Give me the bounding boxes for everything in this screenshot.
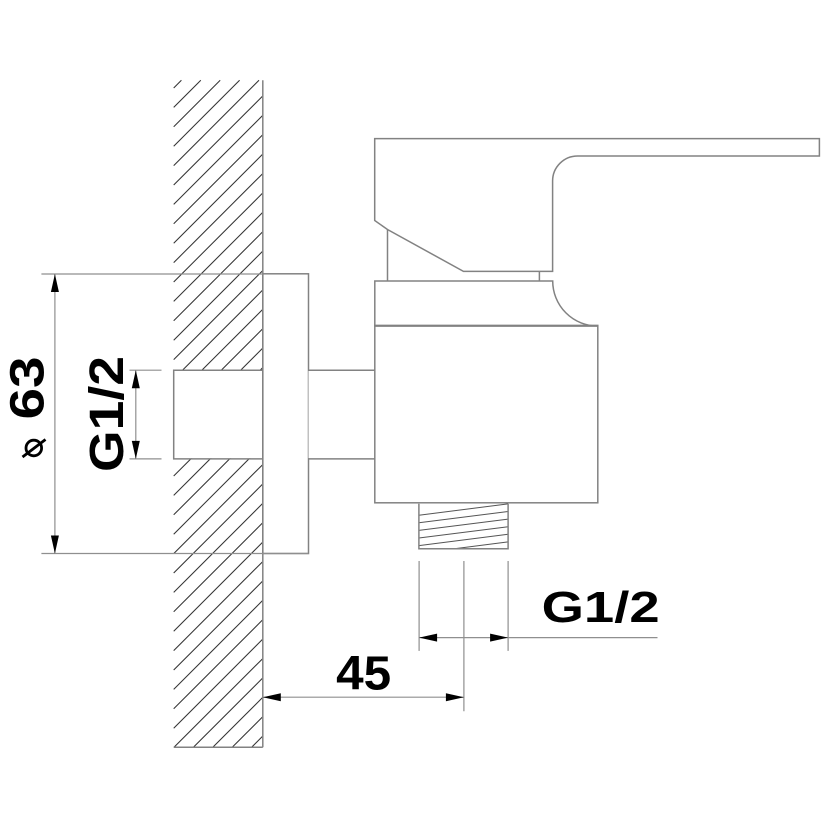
dimension diameter 63: arrow up <box>51 274 59 292</box>
dimension diameter 63: extension line top <box>41 273 262 275</box>
bonnet step <box>538 271 540 281</box>
dimension G1/2 bottom: extension line right <box>507 561 509 651</box>
label diameter symbol <box>23 440 46 458</box>
svg-text:45: 45 <box>336 647 391 700</box>
wall bottom edge <box>174 746 263 748</box>
dimension 45: dimension line <box>263 696 464 698</box>
wall hole (pipe pass-through) <box>173 370 262 459</box>
dimension diameter 63: extension line bottom <box>41 553 308 555</box>
dimension diameter 63: dimension line <box>54 274 56 554</box>
wall plate (escutcheon) <box>263 274 309 554</box>
dimension G1/2 bottom: extension line left <box>418 561 420 651</box>
dimension G1/2 left: dimension line <box>135 370 137 459</box>
dimension 45: arrow right <box>446 693 464 701</box>
dimension G1/2 left: arrow down <box>132 441 140 459</box>
svg-text:G1/2: G1/2 <box>542 583 660 632</box>
dimension 45: extension line middle <box>463 561 465 711</box>
valve body <box>375 325 598 502</box>
valve bonnet cap <box>375 281 598 326</box>
outlet thread boss <box>419 504 508 549</box>
connector pipe <box>309 370 375 459</box>
svg-text:63: 63 <box>2 357 55 420</box>
dimension G1/2 bottom: dimension line with leader <box>419 637 657 639</box>
wall hatching <box>174 80 263 747</box>
wall face line <box>262 80 264 747</box>
dimension G1/2 bottom: arrow right <box>490 634 508 642</box>
dimension diameter 63: arrow down <box>51 536 59 554</box>
dimension G1/2 left: extension line top <box>130 369 162 371</box>
handle base inner vertical <box>387 230 389 282</box>
dimension G1/2 bottom: arrow left <box>419 634 437 642</box>
dimension 45: arrow left <box>263 693 281 701</box>
dimension G1/2 left: extension line bottom <box>130 458 162 460</box>
handle lever <box>375 139 820 272</box>
dimension G1/2 left: arrow up <box>132 370 140 388</box>
svg-text:G1/2: G1/2 <box>81 356 134 472</box>
